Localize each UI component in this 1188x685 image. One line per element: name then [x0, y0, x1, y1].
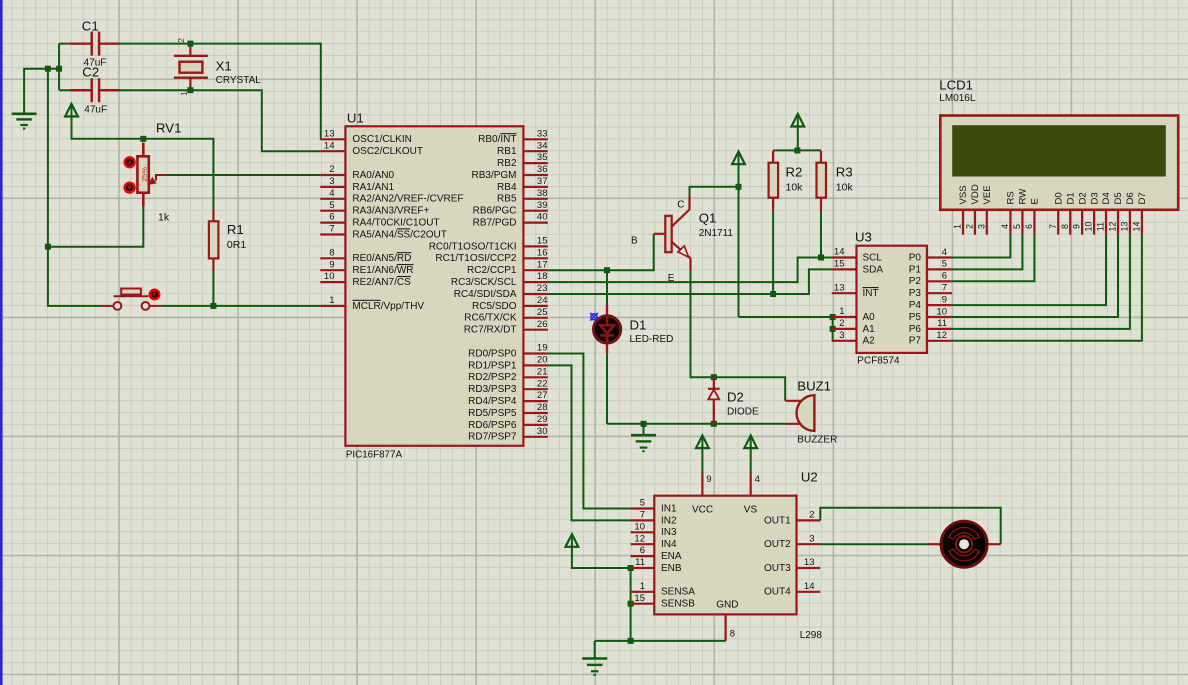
svg-text:P0: P0: [909, 252, 922, 263]
svg-text:14: 14: [1132, 222, 1142, 232]
svg-text:C: C: [677, 200, 684, 211]
wire A0-A1-A2 tie: [832, 317, 834, 341]
wire bottom return row (LED, gnd, D2, buzzer): [607, 423, 785, 425]
power +V at Q1 collector: [732, 152, 745, 165]
svg-text:12: 12: [1108, 222, 1118, 232]
svg-text:7: 7: [329, 224, 334, 235]
LCD1 pin 3 VEE: [986, 210, 988, 235]
resistor R1: [212, 210, 214, 222]
svg-text:RA5/AN4/SS/C2OUT: RA5/AN4/SS/C2OUT: [352, 229, 446, 240]
svg-text:RB6/PGC: RB6/PGC: [473, 206, 517, 217]
U1 pin 29 RD6/PSP6: [523, 424, 547, 426]
LCD1 pin 10 D3: [1093, 210, 1095, 235]
svg-text:P6: P6: [909, 324, 922, 335]
U2 pin 4 VS: [750, 472, 752, 496]
LCD1 pin 11 D4: [1105, 210, 1107, 235]
svg-text:INT: INT: [863, 288, 879, 299]
svg-text:VEE: VEE: [982, 185, 993, 204]
LCD1 pin 13 D6: [1129, 210, 1131, 235]
U3 pin 9 P4: [927, 304, 952, 306]
svg-text:25: 25: [537, 307, 548, 318]
wire Q1 collector to +V and A0 net: [690, 187, 739, 197]
svg-text:3: 3: [839, 330, 844, 341]
U1 pin 16 RC1/T1OSI/CCP2: [523, 257, 547, 259]
svg-text:8: 8: [1060, 224, 1070, 229]
svg-text:R2: R2: [786, 165, 803, 180]
svg-text:RE1/AN6/WR: RE1/AN6/WR: [352, 265, 413, 276]
svg-text:1: 1: [640, 581, 645, 592]
U1 pin 39 RB6/PGC: [523, 210, 547, 212]
wire U3 P0 to LCD RS: [952, 235, 1011, 258]
svg-text:4: 4: [942, 247, 947, 258]
svg-text:D2: D2: [1077, 192, 1088, 204]
svg-text:12: 12: [634, 533, 645, 544]
svg-text:2: 2: [839, 318, 844, 329]
wire U1 RC2 row to Q1 base: [548, 234, 654, 270]
svg-text:8: 8: [329, 247, 334, 258]
svg-text:4: 4: [755, 474, 760, 485]
svg-text:30: 30: [537, 426, 548, 437]
LCD1 pin 5 RW: [1021, 210, 1023, 235]
U1 pin 9 RE1/AN6/WR: [320, 269, 345, 271]
svg-text:BUZ1: BUZ1: [797, 379, 831, 394]
wire U2 OUT2 to motor left: [820, 543, 927, 545]
junction D2 bottom: [711, 421, 717, 427]
svg-text:2: 2: [176, 38, 186, 43]
svg-text:ENB: ENB: [661, 563, 682, 574]
LCD1 pin 8 D1: [1069, 210, 1071, 235]
svg-text:D2: D2: [727, 390, 744, 405]
svg-text:VSS: VSS: [958, 185, 969, 204]
svg-text:29: 29: [537, 414, 548, 425]
svg-text:OUT3: OUT3: [764, 563, 791, 574]
wire +V to ENB: [572, 544, 631, 569]
U1 pin 37 RB4: [523, 186, 547, 188]
svg-text:C1: C1: [82, 19, 99, 34]
svg-text:9: 9: [329, 259, 334, 270]
wire +V rail to RV1 top and R1 top: [72, 113, 214, 210]
svg-text:15: 15: [634, 593, 645, 604]
svg-text:25%: 25%: [140, 167, 149, 182]
wire U3 P4 to LCD D4: [952, 235, 1106, 305]
svg-text:GND: GND: [716, 600, 738, 611]
svg-text:10: 10: [936, 306, 947, 317]
resistor R3: [820, 151, 822, 163]
LCD1 pin 12 D5: [1117, 210, 1119, 235]
svg-text:RB0/INT: RB0/INT: [478, 134, 516, 145]
svg-text:OSC2/CLKOUT: OSC2/CLKOUT: [352, 146, 423, 157]
wire R2 bottom: [772, 210, 774, 294]
wire RV1 bottom to left rail: [48, 206, 143, 247]
svg-text:10: 10: [634, 521, 645, 532]
potentiometer RV1: [142, 143, 145, 157]
svg-text:13: 13: [804, 557, 815, 568]
U1 pin 3 RA1/AN1: [320, 186, 345, 188]
D1 origin marker: [590, 313, 598, 321]
junction LED tap on RC2 row: [604, 267, 610, 273]
junction RV1 top: [140, 136, 146, 142]
node X1 top: [187, 41, 193, 47]
svg-text:RD1/PSP1: RD1/PSP1: [468, 360, 517, 371]
svg-text:4: 4: [1000, 224, 1010, 229]
svg-text:IN4: IN4: [661, 539, 677, 550]
U1 pin 34 RB1: [523, 150, 547, 152]
svg-text:40: 40: [537, 212, 548, 223]
svg-text:13: 13: [834, 282, 845, 293]
driver U2 L298: [654, 496, 796, 615]
U1 pin 36 RB3/PGM: [523, 174, 547, 176]
svg-text:RB7/PGD: RB7/PGD: [473, 218, 517, 229]
mcu U1 PIC16F877A: [345, 126, 523, 446]
power +V at U2 ENB: [566, 534, 579, 547]
wire left rail to MCLR row (left part): [48, 69, 101, 306]
svg-text:RV1: RV1: [156, 121, 181, 136]
U3 pin 2 A1: [832, 328, 857, 330]
svg-text:A0: A0: [863, 312, 876, 323]
junction D2 top: [711, 374, 717, 380]
junction Q1 collector net: [736, 184, 742, 190]
wire RV1 wiper to U1 RA0: [167, 174, 321, 176]
U2 pin 11 ENB: [631, 567, 655, 569]
svg-text:26: 26: [537, 319, 548, 330]
svg-text:24: 24: [537, 295, 548, 306]
LCD1 pin 6 E: [1033, 210, 1035, 235]
svg-text:D4: D4: [1101, 192, 1112, 205]
svg-text:3: 3: [329, 176, 334, 187]
power +V near C2: [65, 104, 78, 117]
junction R3 bottom on SCL wire: [818, 255, 824, 261]
U2 pin 14 OUT4: [797, 591, 821, 593]
wire U3 P7 to LCD D7: [952, 235, 1142, 341]
LCD1 pin 4 RS: [1009, 210, 1011, 235]
svg-text:RD7/PSP7: RD7/PSP7: [468, 432, 517, 443]
U1 pin 38 RB5: [523, 198, 547, 200]
wire caps left vertical: [58, 44, 60, 91]
svg-text:CRYSTAL: CRYSTAL: [216, 75, 262, 86]
svg-text:RE0/AN5/RD: RE0/AN5/RD: [352, 253, 411, 264]
svg-text:RC1/T1OSI/CCP2: RC1/T1OSI/CCP2: [435, 253, 517, 264]
wire U2 OUT1 to motor right: [820, 508, 1000, 544]
U3 pin 5 P1: [927, 268, 952, 270]
svg-text:IN1: IN1: [661, 503, 677, 514]
svg-text:SENSA: SENSA: [661, 587, 695, 598]
LCD1 pin 14 D7: [1141, 210, 1143, 235]
svg-text:X1: X1: [216, 59, 232, 74]
wire MCLR row right of button: [161, 305, 321, 307]
svg-text:11: 11: [937, 318, 947, 329]
svg-text:LM016L: LM016L: [939, 93, 976, 104]
svg-text:47uF: 47uF: [84, 105, 107, 116]
svg-text:LED-RED: LED-RED: [630, 334, 674, 345]
svg-text:6: 6: [329, 212, 334, 223]
svg-text:14: 14: [324, 140, 335, 151]
svg-text:RD3/PSP3: RD3/PSP3: [468, 384, 517, 395]
resistor R2: [772, 151, 774, 163]
svg-text:A1: A1: [863, 324, 876, 335]
svg-text:15: 15: [834, 259, 845, 270]
wire A0 row: [739, 316, 832, 318]
svg-text:PIC16F877A: PIC16F877A: [346, 450, 403, 461]
wire R2/R3 top link: [773, 149, 821, 151]
svg-text:15: 15: [537, 236, 548, 247]
U2 pin 7 IN2: [631, 519, 655, 521]
svg-text:RD5/PSP5: RD5/PSP5: [468, 408, 517, 419]
svg-text:RB5: RB5: [497, 194, 517, 205]
svg-text:6: 6: [942, 271, 947, 282]
svg-text:OSC1/CLKIN: OSC1/CLKIN: [352, 134, 411, 145]
wire U3 P6 to LCD D6: [952, 235, 1130, 329]
U3 pin 7 P3: [927, 292, 952, 294]
ground U2: [594, 641, 596, 659]
svg-text:4: 4: [329, 188, 334, 199]
U1 pin 8 RE0/AN5/RD: [320, 257, 345, 259]
svg-text:RB1: RB1: [497, 146, 517, 157]
svg-text:P7: P7: [909, 336, 922, 347]
svg-text:11: 11: [1096, 222, 1106, 231]
svg-text:RC7/RX/DT: RC7/RX/DT: [464, 325, 517, 336]
svg-text:18: 18: [537, 271, 548, 282]
motor: [928, 543, 941, 545]
U3 pin 14 SCL: [832, 256, 857, 258]
svg-text:5: 5: [1012, 224, 1022, 229]
svg-text:1k: 1k: [158, 212, 170, 224]
U1 pin 30 RD7/PSP7: [523, 436, 547, 438]
wire Q1 emitter to D2/BUZ1 top: [691, 271, 786, 401]
wire U3 P5 to LCD D5: [952, 235, 1118, 317]
svg-text:B: B: [631, 236, 638, 247]
U3 pin 13 INT: [832, 292, 857, 294]
U2 pin 13 OUT3: [797, 567, 821, 569]
svg-text:U1: U1: [347, 110, 364, 125]
U3 pin 10 P5: [927, 316, 952, 318]
RV1 up actuator: [125, 157, 135, 167]
svg-text:7: 7: [1048, 224, 1058, 229]
svg-text:P3: P3: [909, 288, 922, 299]
svg-text:5: 5: [329, 200, 334, 211]
svg-text:DIODE: DIODE: [727, 407, 759, 418]
svg-text:RC3/SCK/SCL: RC3/SCK/SCL: [451, 277, 517, 288]
svg-text:11: 11: [635, 557, 645, 568]
svg-text:RA2/AN2/VREF-/CVREF: RA2/AN2/VREF-/CVREF: [352, 194, 463, 205]
svg-text:36: 36: [537, 164, 548, 175]
wire R3 bottom: [820, 210, 822, 257]
junction ENB: [628, 565, 634, 571]
U1 pin 21 RD2/PSP2: [523, 376, 547, 378]
junction caps-left: [56, 66, 62, 72]
U2 pin 10 IN3: [631, 531, 655, 533]
U1 pin 18 RC3/SCK/SCL: [523, 281, 547, 283]
svg-text:20: 20: [537, 355, 548, 366]
junction GND row U2: [628, 638, 634, 644]
svg-text:RE2/AN7/CS: RE2/AN7/CS: [352, 277, 411, 288]
LED D1: [606, 305, 608, 316]
svg-text:D0: D0: [1053, 192, 1064, 204]
U1 pin 14 OSC2/CLKOUT: [320, 150, 345, 152]
wire LED anode drop: [606, 270, 608, 305]
svg-text:1: 1: [179, 91, 189, 96]
svg-text:22: 22: [537, 378, 548, 389]
svg-text:P2: P2: [909, 276, 922, 287]
svg-text:LCD1: LCD1: [939, 78, 973, 93]
wire ground link top-left: [24, 69, 59, 113]
wire U1 RD1 to U2 IN2: [548, 365, 631, 520]
svg-text:37: 37: [537, 176, 548, 187]
svg-text:C2: C2: [82, 64, 99, 79]
svg-text:9: 9: [706, 474, 711, 485]
node X1 bottom: [187, 87, 193, 93]
U1 pin 27 RD4/PSP4: [523, 400, 547, 402]
svg-text:1: 1: [839, 306, 844, 317]
wire U1 RD0 to U2 IN1: [548, 354, 631, 509]
LCD1 pin 1 VSS: [962, 210, 964, 235]
wire U1 RC4 row to U3 SDA: [548, 269, 832, 294]
U2 pin 8 GND: [724, 614, 726, 641]
svg-text:8: 8: [730, 629, 735, 640]
U1 pin 20 RD1/PSP1: [523, 364, 547, 366]
svg-text:39: 39: [537, 200, 548, 211]
svg-text:RB4: RB4: [497, 182, 517, 193]
RV1 down actuator: [125, 183, 135, 193]
junction left rail top: [45, 66, 51, 72]
U1 pin 24 RC5/SDO: [523, 305, 547, 307]
junction A0: [830, 314, 836, 320]
svg-text:R1: R1: [227, 222, 244, 237]
svg-text:21: 21: [537, 366, 548, 377]
wire C2 row / X1 bottom to U1 OSC2: [59, 90, 320, 151]
svg-text:5: 5: [942, 259, 947, 270]
svg-text:OUT1: OUT1: [764, 515, 791, 526]
svg-text:RC2/CCP1: RC2/CCP1: [467, 265, 517, 276]
U1 pin 26 RC7/RX/DT: [523, 329, 547, 331]
svg-text:OUT2: OUT2: [764, 539, 791, 550]
U3 pin 3 A2: [832, 340, 857, 342]
U1 pin 19 RD0/PSP0: [523, 352, 547, 354]
svg-text:RW: RW: [1018, 188, 1029, 205]
svg-text:7: 7: [640, 510, 645, 521]
U3 pin 6 P2: [927, 280, 952, 282]
svg-text:E: E: [668, 273, 675, 284]
svg-text:P4: P4: [909, 300, 922, 311]
svg-text:IN3: IN3: [661, 527, 677, 538]
svg-text:28: 28: [537, 402, 548, 413]
power +V at U2 VCC pin9: [696, 436, 709, 449]
wire R1 bottom to MCLR row: [212, 271, 214, 306]
svg-text:10k: 10k: [836, 182, 854, 194]
svg-text:9: 9: [1072, 224, 1082, 229]
svg-text:3: 3: [809, 533, 814, 544]
svg-text:RA0/AN0: RA0/AN0: [352, 170, 394, 181]
svg-text:RD4/PSP4: RD4/PSP4: [468, 396, 517, 407]
junction R2/R3 +V: [794, 147, 800, 153]
LCD1 pin 9 D2: [1081, 210, 1083, 235]
push button actuator: [150, 290, 159, 299]
ground top-left: [12, 113, 37, 116]
lcd LCD1 LM016L: [940, 116, 1178, 210]
svg-text:SCL: SCL: [863, 252, 883, 263]
U1 pin 7 RA5/AN4/SS/C2OUT: [320, 233, 345, 235]
svg-text:Q1: Q1: [699, 211, 717, 226]
U1 pin 23 RC4/SDI/SDA: [523, 293, 547, 295]
svg-text:D1: D1: [1065, 192, 1076, 204]
capacitor C1: [93, 42, 98, 45]
U3 pin 12 P7: [927, 340, 952, 342]
ground middle: [643, 424, 645, 435]
svg-text:RA1/AN1: RA1/AN1: [352, 182, 394, 193]
wire U3 P1 to LCD RW: [952, 235, 1023, 270]
U2 pin 3 OUT2: [797, 543, 821, 545]
svg-text:1: 1: [329, 295, 334, 306]
svg-text:D5: D5: [1113, 192, 1124, 204]
svg-text:2: 2: [809, 510, 814, 521]
U1 pin 1 MCLR/Vpp/THV: [320, 305, 345, 307]
svg-text:19: 19: [537, 343, 548, 354]
junction R2 bottom on SDA wire: [770, 291, 776, 297]
svg-text:D7: D7: [1137, 192, 1148, 204]
U2 pin 1 SENSA: [631, 591, 655, 593]
capacitor C2: [93, 89, 98, 92]
svg-text:U2: U2: [801, 470, 818, 485]
U3 pin 4 P0: [927, 256, 952, 258]
svg-text:R3: R3: [836, 165, 853, 180]
svg-text:ENA: ENA: [661, 551, 682, 562]
svg-text:D6: D6: [1125, 192, 1136, 204]
U1 pin 15 RC0/T1OSO/T1CKI: [523, 245, 547, 247]
svg-text:RC4/SDI/SDA: RC4/SDI/SDA: [454, 289, 517, 300]
svg-text:2N1711: 2N1711: [699, 228, 734, 239]
wire C1 top row to U1 OSC1: [59, 44, 321, 140]
wire LED cathode down: [606, 353, 608, 424]
svg-text:33: 33: [537, 128, 548, 139]
svg-text:IN2: IN2: [661, 515, 677, 526]
U1 pin 33 RB0/INT: [523, 138, 547, 140]
svg-text:PCF8574: PCF8574: [857, 356, 900, 367]
buzzer BUZ1: [785, 400, 803, 402]
svg-text:P1: P1: [909, 264, 922, 275]
svg-text:RD0/PSP0: RD0/PSP0: [468, 348, 517, 359]
U2 pin 15 SENSB: [631, 603, 655, 605]
svg-text:BUZZER: BUZZER: [797, 434, 837, 445]
U2 pin 6 ENA: [631, 555, 655, 557]
svg-text:2: 2: [965, 224, 975, 229]
svg-text:17: 17: [537, 259, 548, 270]
svg-text:D1: D1: [630, 318, 647, 333]
U1 pin 22 RD3/PSP3: [523, 388, 547, 390]
svg-text:12: 12: [936, 330, 947, 341]
svg-text:27: 27: [537, 390, 548, 401]
svg-text:RS: RS: [1006, 191, 1017, 204]
junction R1 / MCLR row: [210, 303, 216, 309]
U1 pin 6 RA4/T0CKI/C1OUT: [320, 222, 345, 224]
svg-text:VCC: VCC: [692, 504, 713, 515]
svg-text:34: 34: [537, 140, 548, 151]
U1 pin 2 RA0/AN0: [320, 174, 345, 176]
svg-text:RC5/SDO: RC5/SDO: [472, 301, 517, 312]
wire U2 GND row: [595, 640, 726, 642]
svg-text:RD6/PSP6: RD6/PSP6: [468, 420, 517, 431]
junction A1: [830, 326, 836, 332]
svg-text:1: 1: [953, 224, 963, 229]
svg-text:RA4/T0CKI/C1OUT: RA4/T0CKI/C1OUT: [352, 218, 439, 229]
svg-text:RD2/PSP2: RD2/PSP2: [468, 372, 517, 383]
svg-text:38: 38: [537, 188, 548, 199]
U2 pin 12 IN4: [631, 543, 655, 545]
svg-text:D3: D3: [1089, 192, 1100, 204]
junction rail / RV1 bottom: [45, 244, 51, 250]
svg-text:14: 14: [804, 581, 815, 592]
svg-text:16: 16: [537, 247, 548, 258]
wire U3 P2 to LCD E: [952, 235, 1035, 281]
U1 pin 13 OSC1/CLKIN: [320, 138, 345, 140]
